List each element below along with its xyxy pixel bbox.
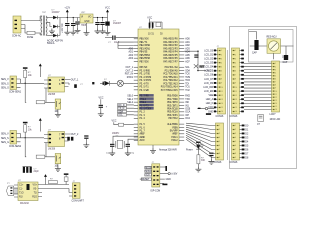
capacitor C7 with VCC [99, 98, 104, 105]
capacitor C7 [99, 105, 103, 108]
svg-text:LM358: LM358 [48, 149, 56, 151]
resistor R3 [24, 125, 27, 132]
svg-text:AD7: AD7 [185, 60, 190, 63]
svg-text:8: 8 [221, 79, 222, 81]
capacitor C4 [95, 22, 99, 25]
svg-text:C1+: C1+ [19, 185, 24, 187]
op-amp section B sensor connector J3 [1, 131, 25, 149]
svg-text:4: 4 [275, 72, 276, 74]
svg-text:SEN_V: SEN_V [1, 134, 9, 136]
resistor R7 [48, 181, 57, 184]
svg-text:3: 3 [235, 133, 236, 135]
svg-text:11: 11 [235, 91, 237, 93]
svg-text:5: 5 [235, 66, 236, 68]
capacitor C5 [100, 22, 104, 25]
svg-text:OC2: OC2 [185, 118, 190, 120]
svg-text:GND: GND [166, 179, 171, 181]
svg-text:+12V: +12V [64, 7, 70, 10]
svg-text:CAP: CAP [283, 61, 288, 64]
svg-text:AC/DC ADP 9V: AC/DC ADP 9V [47, 40, 63, 43]
net dot [92, 82, 94, 84]
svg-text:Atmega 328 AVR: Atmega 328 AVR [159, 149, 177, 152]
svg-text:(+)5V: (+)5V [172, 174, 178, 176]
svg-text:P3.6/WR: P3.6/WR [140, 89, 150, 92]
preset pot RV1 [55, 99, 61, 113]
svg-text:CON-UART: CON-UART [72, 200, 85, 203]
header CON3 [230, 48, 240, 118]
svg-text:XTAL2: XTAL2 [171, 139, 178, 142]
svg-text:VO: VO [88, 17, 92, 19]
ground center-tap [49, 29, 55, 34]
svg-text:LCD_D2: LCD_D2 [204, 58, 214, 60]
svg-text:R1I: R1I [19, 196, 23, 198]
svg-text:VCC: VCC [112, 121, 117, 123]
svg-text:T1I: T1I [34, 192, 38, 194]
wire feedback A [25, 83, 55, 102]
svg-text:22pF: 22pF [34, 171, 40, 173]
svg-text:7: 7 [235, 75, 236, 77]
resistor R5 VCC pullup [112, 121, 119, 125]
svg-text:5: 5 [275, 75, 276, 77]
svg-text:9: 9 [235, 83, 236, 85]
resistor R6 330 [197, 155, 200, 164]
svg-text:12: 12 [221, 95, 223, 97]
svg-text:AD3: AD3 [185, 47, 190, 50]
svg-text:5: 5 [235, 141, 236, 143]
power flag section A [23, 67, 28, 71]
svg-text:16: 16 [275, 109, 277, 111]
svg-text:MAX232: MAX232 [20, 202, 30, 205]
capacitor C12 [252, 40, 259, 55]
svg-text:AD2: AD2 [185, 44, 190, 47]
svg-text:11: 11 [221, 91, 223, 93]
svg-text:AD1: AD1 [128, 51, 133, 54]
capacitor C8 22pF [110, 144, 114, 147]
svg-text:TDO: TDO [185, 80, 190, 82]
module board outline [230, 27, 297, 169]
svg-text:T1O: T1O [19, 192, 24, 194]
svg-text:9: 9 [275, 88, 276, 90]
svg-text:OCA: OCA [185, 111, 190, 114]
wire board vertical bus [226, 50, 228, 160]
resistor R4 [36, 155, 45, 158]
wire AC N to fuse [25, 25, 27, 34]
fuse F1 [27, 31, 40, 39]
wire rectifier output join [60, 18, 80, 36]
svg-text:7: 7 [275, 82, 276, 84]
wires MCU to CON4 [186, 123, 216, 157]
svg-text:AD6: AD6 [185, 57, 190, 60]
svg-text:FUSE: FUSE [27, 37, 34, 39]
svg-text:1N4007: 1N4007 [113, 23, 122, 25]
capacitor C1 electrolytic [66, 18, 68, 23]
wire AC L [25, 20, 40, 23]
ISP ground bar [160, 183, 168, 185]
header CON4 [214, 123, 224, 164]
svg-text:1: 1 [219, 125, 220, 127]
svg-text:TO2: TO2 [185, 90, 190, 92]
wire pot B ground [57, 164, 59, 166]
svg-text:LCD_D7: LCD_D7 [204, 79, 214, 81]
microcontroller U1 [134, 27, 191, 145]
svg-text:500mA: 500mA [47, 42, 55, 45]
ground MCU [152, 145, 154, 148]
wire pot to ground [57, 109, 59, 112]
svg-text:8: 8 [275, 85, 276, 87]
svg-text:OCB: OCB [185, 109, 190, 111]
svg-text:TMS: TMS [185, 77, 190, 79]
ground D3 [105, 30, 111, 35]
wire C1 to ground [66, 26, 68, 30]
svg-text:LCD_D1: LCD_D1 [204, 54, 214, 56]
svg-text:14: 14 [221, 103, 223, 105]
svg-text:CON16: CON16 [230, 162, 238, 164]
regulator U2 7805 [80, 12, 93, 27]
svg-text:CON16: CON16 [230, 116, 238, 118]
svg-text:8: 8 [235, 79, 236, 81]
wires CON3 to LCD [240, 51, 272, 112]
LED D5 power [186, 144, 203, 155]
svg-text:3: 3 [221, 58, 222, 60]
svg-text:10: 10 [221, 87, 223, 89]
svg-text:6: 6 [235, 145, 236, 147]
svg-text:SCL: SCL [185, 67, 190, 69]
svg-text:LCD_D0: LCD_D0 [204, 50, 214, 52]
svg-text:AD0: AD0 [185, 38, 190, 41]
resistor R5 [118, 123, 123, 126]
svg-text:OUT_1: OUT_1 [71, 79, 79, 81]
svg-text:9: 9 [235, 157, 236, 159]
svg-text:2: 2 [235, 54, 236, 56]
IC U5 MAX232 [14, 180, 42, 205]
junction node A [25, 83, 26, 84]
svg-text:LCD_RS: LCD_RS [204, 83, 214, 85]
svg-text:12: 12 [235, 95, 237, 97]
LCD header U6 [270, 61, 280, 116]
svg-text:16MHz: 16MHz [112, 133, 120, 135]
svg-text:CON-SEN1: CON-SEN1 [9, 92, 22, 94]
ground regulator [84, 30, 90, 35]
svg-text:LM358: LM358 [48, 94, 56, 96]
svg-text:12: 12 [275, 97, 277, 99]
svg-text:7: 7 [235, 149, 236, 151]
svg-text:AVCC: AVCC [140, 139, 146, 142]
svg-text:7: 7 [219, 149, 220, 151]
svg-text:7805: 7805 [81, 25, 87, 27]
svg-text:2-: 2- [49, 84, 51, 86]
svg-text:5: 5 [221, 66, 222, 68]
svg-text:SDA: SDA [185, 69, 190, 72]
svg-text:AD3: AD3 [128, 57, 133, 60]
wire regulator gnd [86, 23, 88, 30]
capacitor C2 [72, 18, 74, 23]
svg-text:VCC: VCC [99, 98, 104, 100]
power flag U3 [39, 64, 42, 72]
wire MAX232 to UART header [42, 182, 69, 188]
svg-text:C1-: C1- [19, 189, 23, 191]
svg-text:LCD_EN: LCD_EN [204, 91, 214, 93]
svg-text:5: 5 [219, 141, 220, 143]
svg-text:PD7/OC2: PD7/OC2 [169, 117, 179, 120]
svg-text:13: 13 [221, 99, 223, 101]
svg-text:CON16: CON16 [214, 162, 222, 164]
junction dots rail [67, 17, 103, 18]
wire to net label [197, 69, 211, 72]
svg-text:10: 10 [235, 87, 237, 89]
transformer TR1 [40, 12, 52, 36]
svg-text:9: 9 [221, 83, 222, 85]
svg-text:RST_IN: RST_IN [125, 74, 134, 76]
svg-text:16: 16 [221, 111, 223, 113]
ground C7 [98, 111, 104, 116]
crossed wires mark [194, 64, 205, 68]
svg-text:4: 4 [235, 137, 236, 139]
svg-text:VS-: VS- [33, 189, 37, 191]
ground LED [195, 167, 201, 172]
ground C17 [75, 28, 81, 33]
net labels MCU left top [118, 42, 134, 104]
wire pot feed [249, 32, 294, 57]
svg-text:RX_D: RX_D [118, 105, 125, 107]
power flag U4 [39, 118, 42, 126]
svg-text:VCC: VCC [147, 17, 152, 19]
svg-text:TX_D: TX_D [118, 108, 124, 110]
svg-text:RXD: RXD [185, 96, 190, 98]
svg-text:AD2: AD2 [128, 54, 133, 57]
ground C11 [208, 159, 214, 164]
svg-text:4: 4 [221, 62, 222, 64]
svg-text:8: 8 [219, 153, 220, 155]
svg-text:3: 3 [275, 69, 276, 71]
svg-text:MISO: MISO [145, 171, 151, 173]
svg-text:10 31: 10 31 [148, 34, 155, 36]
svg-text:SDA: SDA [118, 110, 123, 113]
diode D7 1N4007 [53, 25, 60, 29]
ground C16 [83, 142, 89, 147]
svg-text:4: 4 [235, 62, 236, 64]
capacitor C14 [257, 115, 263, 126]
ISP right power bar [160, 166, 167, 171]
capacitor C16 [84, 135, 88, 142]
capacitor C3 reset [105, 36, 138, 45]
svg-text:OUT_2: OUT_2 [125, 70, 133, 72]
svg-text:10: 10 [275, 91, 277, 93]
ISP right wire low [160, 179, 171, 181]
svg-text:VCC: VCC [105, 7, 110, 10]
power flag VCC [105, 7, 110, 18]
power flag +12V [64, 7, 70, 18]
ground C4 [95, 28, 101, 33]
svg-text:TCK: TCK [185, 74, 190, 76]
svg-text:8: 8 [235, 153, 236, 155]
resistor R1 [24, 70, 27, 77]
svg-text:VS+: VS+ [33, 185, 38, 187]
svg-text:AD5: AD5 [185, 54, 190, 57]
svg-text:SEL1: SEL1 [127, 99, 133, 101]
wire feedback B [25, 138, 55, 157]
svg-text:4: 4 [219, 137, 220, 139]
svg-text:AD1: AD1 [185, 41, 190, 44]
svg-text:SEN_S: SEN_S [1, 84, 9, 86]
op-amp U4 LM358 [44, 130, 71, 151]
power flag MAX232 [44, 174, 47, 182]
svg-text:1: 1 [235, 125, 236, 127]
svg-text:SEL0: SEL0 [127, 96, 133, 98]
svg-text:6: 6 [235, 71, 236, 73]
svg-text:P1.4: P1.4 [140, 117, 146, 120]
ground C5 [100, 28, 106, 33]
diode D6 [64, 173, 69, 184]
wire R3 node B [21, 132, 45, 138]
svg-text:6: 6 [275, 79, 276, 81]
ground MCU [150, 148, 156, 153]
svg-text:SEN_S: SEN_S [1, 138, 9, 140]
capacitor C2 [71, 23, 75, 26]
ground C2 [70, 30, 76, 35]
capacitor C17 [77, 18, 79, 22]
svg-text:SEN_G: SEN_G [1, 88, 9, 90]
svg-text:CON-AC: CON-AC [12, 35, 22, 38]
svg-text:9: 9 [219, 157, 220, 159]
trimmer pot RV3 [267, 36, 287, 60]
ground pot RV1 [55, 112, 61, 117]
svg-text:14: 14 [235, 103, 237, 105]
wire R6 ground [197, 164, 199, 167]
capacitor C17 [75, 22, 79, 25]
svg-text:CAP: CAP [252, 52, 257, 55]
svg-text:TXD: TXD [185, 99, 190, 101]
diode D1 1N4007 [47, 10, 60, 20]
svg-text:6: 6 [221, 71, 222, 73]
svg-text:15: 15 [221, 107, 223, 109]
svg-text:SEL2: SEL2 [127, 102, 133, 104]
svg-text:+12V DC: +12V DC [62, 23, 64, 33]
diode D2 1N4007 [47, 34, 60, 38]
capacitor C6 [68, 83, 70, 85]
wire AREF RC [184, 51, 199, 71]
svg-text:RESET: RESET [142, 179, 150, 181]
op-amp U3 LM358 [44, 75, 71, 96]
svg-text:CON-SEN2: CON-SEN2 [9, 146, 22, 148]
svg-text:TO1: TO1 [185, 87, 190, 89]
ground C8 [109, 150, 115, 155]
ISP left net labels [140, 166, 152, 181]
svg-text:2: 2 [235, 129, 236, 131]
svg-text:7: 7 [221, 75, 222, 77]
connector J1 AC input [12, 16, 25, 38]
crystal resonator XT2 [23, 167, 40, 174]
resistor R2 [36, 101, 45, 104]
svg-text:11: 11 [275, 94, 277, 96]
op-amp section A sensor connector J2 [1, 76, 25, 94]
svg-text:1: 1 [275, 63, 276, 65]
svg-text:SEN_V: SEN_V [1, 79, 9, 81]
svg-text:PA7/ADC7/P7: PA7/ADC7/P7 [163, 60, 178, 63]
ISP +5V terminal [160, 173, 178, 176]
svg-text:6: 6 [219, 145, 220, 147]
svg-text:15: 15 [235, 107, 237, 109]
svg-text:Power: Power [186, 149, 193, 152]
svg-text:GND: GND [84, 21, 89, 23]
svg-text:2: 2 [275, 66, 276, 68]
svg-text:ICP: ICP [185, 115, 189, 117]
svg-text:SEN_G: SEN_G [1, 142, 9, 144]
svg-text:15: 15 [275, 106, 277, 108]
svg-text:TDI: TDI [185, 83, 189, 85]
capacitor C4 [97, 18, 99, 22]
crystal Y1 [112, 133, 138, 148]
capacitor C15 [67, 137, 73, 141]
power flag section B [23, 122, 28, 126]
svg-text:LCD_D6: LCD_D6 [204, 75, 214, 77]
svg-text:1N4007: 1N4007 [52, 12, 61, 14]
svg-text:R1O: R1O [32, 196, 37, 198]
capacitor C1 1000uF [65, 23, 69, 26]
capacitor C5 [102, 18, 104, 22]
svg-text:3: 3 [219, 133, 220, 135]
svg-text:GND: GND [208, 111, 213, 113]
svg-text:RES-ADJ: RES-ADJ [267, 36, 277, 39]
wire C2 ground [72, 26, 74, 30]
svg-text:14: 14 [275, 103, 277, 105]
svg-text:PB7/SCK: PB7/SCK [140, 60, 150, 63]
capacitor C10 [194, 55, 198, 58]
svg-text:LCD_D4: LCD_D4 [204, 67, 214, 69]
wire R1 to node [21, 78, 45, 84]
capacitor C11 [209, 153, 213, 159]
svg-text:13: 13 [235, 99, 237, 101]
svg-text:LCD_RW: LCD_RW [203, 87, 214, 89]
svg-text:1: 1 [221, 50, 222, 52]
net marks right of CON3 [241, 50, 244, 113]
svg-text:VI: VI [81, 17, 84, 19]
svg-text:16X2 LCD: 16X2 LCD [270, 119, 281, 121]
ground C9 [125, 150, 131, 155]
power flag VCC MCU top [147, 17, 162, 29]
header CON5 [230, 123, 240, 164]
svg-text:2: 2 [219, 129, 220, 131]
power flag LED [196, 142, 200, 145]
serial port P1 [6, 183, 18, 195]
svg-text:16: 16 [235, 111, 237, 113]
ISP header J4 [151, 162, 161, 193]
net label boxes MCU left [118, 104, 134, 117]
svg-text:MOSI: MOSI [145, 167, 151, 169]
svg-text:1: 1 [235, 50, 236, 52]
svg-text:2: 2 [221, 54, 222, 56]
svg-text:SCK: SCK [145, 175, 150, 177]
svg-text:VEE: VEE [209, 95, 214, 97]
svg-text:LCD?: LCD? [270, 114, 277, 116]
svg-text:OUT_2: OUT_2 [71, 134, 79, 136]
svg-text:CON16: CON16 [216, 116, 224, 118]
wire regulator output rail [93, 17, 108, 19]
svg-text:6-: 6- [49, 139, 51, 141]
contrast sub-box [249, 30, 294, 63]
svg-text:OUT_1: OUT_1 [125, 67, 133, 69]
svg-text:VCC: VCC [208, 107, 213, 109]
svg-text:3: 3 [235, 58, 236, 60]
svg-text:RXD1: RXD1 [127, 77, 134, 79]
header CON2 [216, 48, 226, 118]
svg-text:LED_K: LED_K [206, 103, 214, 105]
svg-text:SCL: SCL [118, 115, 123, 117]
capacitor C13 [283, 55, 289, 64]
svg-text:LCD_D5: LCD_D5 [204, 71, 214, 73]
ground pot RV2 [55, 166, 61, 171]
net labels left of CON2 [203, 49, 217, 113]
terminal circle [197, 107, 214, 114]
